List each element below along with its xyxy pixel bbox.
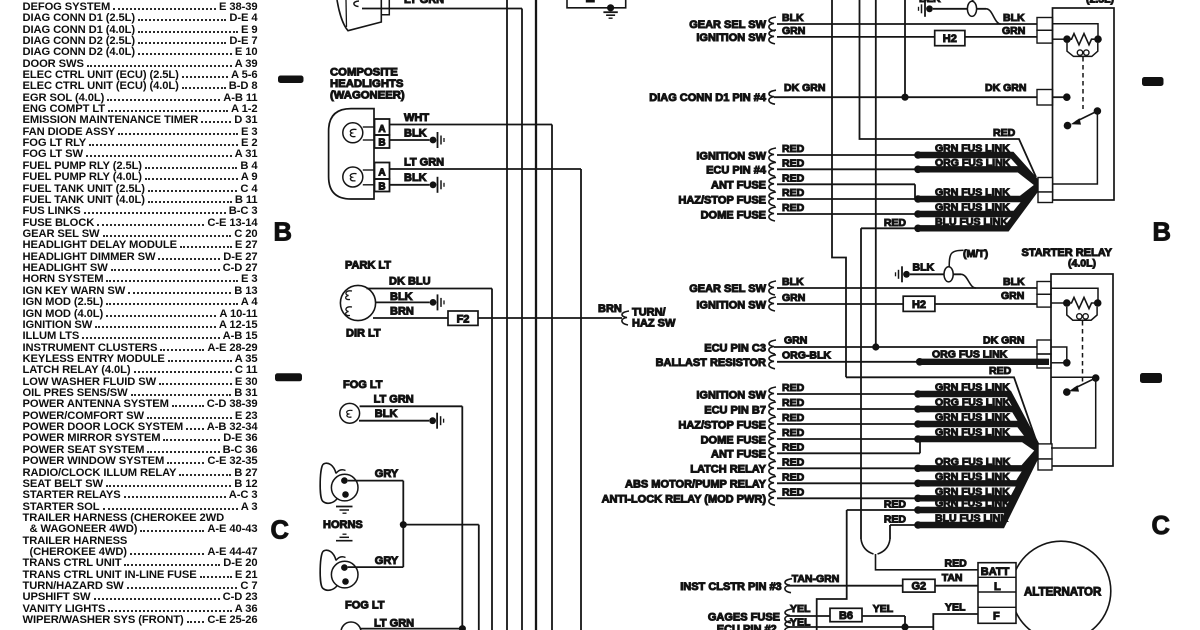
- svg-text:GRN FUS LINK: GRN FUS LINK: [935, 412, 1010, 424]
- wire BLK bulb2 + ground: [390, 172, 445, 193]
- relay2 pin (DK GRN): [1037, 340, 1051, 354]
- label STARTER RELAY (4.0L): [1022, 247, 1113, 270]
- connector B6: [830, 608, 862, 622]
- svg-text:BLU FUS LINK: BLU FUS LINK: [935, 216, 1008, 228]
- wire LT GRN fog lamp 1: [360, 394, 463, 407]
- grid letter C (left): [271, 517, 289, 545]
- relay1 switch arm: [1064, 107, 1102, 129]
- wire horn bus vertical: [402, 481, 404, 567]
- svg-text:RED: RED: [884, 217, 907, 229]
- svg-text:RED: RED: [884, 499, 907, 511]
- ground (relay1 BLK) with bulkhead grommet: [919, 0, 1002, 24]
- svg-text:BLK: BLK: [1003, 276, 1025, 288]
- svg-text:HAZ SW: HAZ SW: [632, 318, 676, 330]
- svg-text:B: B: [1153, 219, 1171, 247]
- relay2 pin (GRN): [1037, 294, 1051, 307]
- svg-text:DIR LT: DIR LT: [346, 328, 381, 340]
- node GAGES FUSE: [708, 603, 909, 630]
- svg-text:ORG FUS LINK: ORG FUS LINK: [932, 348, 1008, 360]
- node BALLAST RESISTOR / ORG FUS LINK: [656, 348, 1049, 369]
- label COMPOSITE HEADLIGHTS (WAGONEER): [330, 67, 405, 102]
- wire descender (GRN FUS LINK feeder): [817, 510, 847, 630]
- svg-text:RED: RED: [782, 143, 805, 155]
- label FOG LT: [343, 379, 383, 391]
- fusible link GRN FUS LINK (HAZ/STOP FUSE) relay2: [678, 412, 1039, 451]
- svg-text:HAZ/STOP FUSE: HAZ/STOP FUSE: [678, 194, 766, 206]
- svg-text:BRN: BRN: [390, 306, 414, 318]
- relay box (cut off at top edge): [567, 0, 626, 8]
- svg-text:G2: G2: [911, 581, 926, 593]
- svg-text:ECU PIN C3: ECU PIN C3: [704, 342, 766, 354]
- wire feeder B (RED relay1): [860, 0, 1037, 177]
- wire YEL to alternator F: [933, 602, 977, 630]
- label RED (relay1 feed): [993, 127, 1016, 139]
- svg-text:LT GRN: LT GRN: [404, 157, 444, 169]
- label HORNS: [323, 519, 363, 531]
- svg-text:RED: RED: [782, 412, 805, 424]
- svg-text:RED: RED: [782, 172, 805, 184]
- grid mark left B/C: [275, 373, 302, 381]
- relay1 pin (DK GRN): [1037, 90, 1053, 106]
- relay2 pin (ORG FUS LINK): [1037, 354, 1051, 368]
- connector G2: [903, 579, 935, 592]
- svg-text:BATT: BATT: [981, 566, 1010, 578]
- svg-text:GEAR SEL SW: GEAR SEL SW: [689, 283, 766, 295]
- svg-text:HAZ/STOP FUSE: HAZ/STOP FUSE: [678, 419, 766, 431]
- connector H2 (relay2): [903, 296, 935, 311]
- horn 2: [320, 550, 358, 590]
- fusible link ORG FUS LINK (LATCH RELAY) relay2: [690, 450, 1039, 476]
- svg-text:ECU PIN B7: ECU PIN B7: [704, 404, 766, 416]
- ground (relay2 BLK) with grommet, (M/T): [896, 248, 989, 288]
- svg-text:ORG-BLK: ORG-BLK: [782, 349, 831, 361]
- svg-text:RED: RED: [782, 397, 805, 409]
- terminal L: [994, 581, 1001, 593]
- svg-text:BLK: BLK: [1003, 12, 1025, 24]
- relay1 coil (resistor + winding): [1053, 34, 1102, 57]
- node ECU PIN C3: [704, 335, 1037, 355]
- relay2 switch arm: [1051, 374, 1099, 396]
- wire bus 7 (LT GRN fog): [461, 406, 463, 628]
- svg-text:B6: B6: [839, 610, 853, 622]
- wire bus 4 (WHT): [551, 125, 553, 630]
- svg-text:A: A: [378, 124, 385, 135]
- svg-text:DIAG CONN D1 PIN #4: DIAG CONN D1 PIN #4: [649, 92, 767, 104]
- fusible link GRN FUS LINK (IGNITION SW) relay2: [696, 382, 1039, 451]
- svg-text:GRN FUS LINK: GRN FUS LINK: [935, 498, 1010, 510]
- wire bus 5 (LT GRN bulb2): [580, 169, 582, 630]
- svg-text:LT GRN: LT GRN: [374, 618, 414, 630]
- relay2 actuation (dashed): [1082, 321, 1084, 382]
- svg-text:LT GRN: LT GRN: [404, 0, 444, 6]
- svg-text:ANT FUSE: ANT FUSE: [711, 180, 766, 192]
- svg-text:DOME FUSE: DOME FUSE: [701, 209, 766, 221]
- wire LT GRN fog lamp 2: [361, 618, 462, 630]
- svg-text:GAGES FUSE: GAGES FUSE: [708, 611, 780, 623]
- svg-text:ANT FUSE: ANT FUSE: [711, 449, 766, 461]
- wire GRY horn 2: [348, 555, 404, 567]
- svg-text:B: B: [274, 219, 292, 247]
- svg-text:C: C: [1152, 512, 1170, 540]
- svg-text:GRN FUS LINK: GRN FUS LINK: [935, 382, 1010, 394]
- svg-text:BRN: BRN: [598, 303, 622, 315]
- label (2.5L) clipped: [1086, 0, 1114, 6]
- wire LT GRN from headlamp: [362, 8, 522, 10]
- svg-text:FOG LT: FOG LT: [343, 379, 383, 391]
- relay1 switch common to pin: [1053, 111, 1098, 184]
- svg-text:INST CLSTR PIN #3: INST CLSTR PIN #3: [680, 581, 781, 593]
- wire RED relay2 feed: [846, 365, 1036, 440]
- wire descender (BLU FUS LINK feeder): [889, 525, 891, 539]
- svg-text:FOG LT: FOG LT: [345, 600, 385, 612]
- junction feeder D / DIAG CONN: [901, 94, 908, 101]
- wire descender to funnel: [860, 228, 862, 539]
- svg-text:HEADLIGHTS: HEADLIGHTS: [330, 78, 404, 90]
- svg-text:GRN: GRN: [1002, 25, 1025, 37]
- svg-text:GRN FUS LINK: GRN FUS LINK: [935, 427, 1010, 439]
- ground (horn 1): [336, 507, 353, 514]
- grid mark left A/B: [278, 76, 304, 84]
- svg-text:BLK: BLK: [782, 276, 804, 288]
- svg-text:TAN-GRN: TAN-GRN: [792, 573, 840, 585]
- fusible link GRN FUS LINK (feeder) relay2: [847, 450, 1039, 514]
- wire BLK fog lamp 1 + ground: [359, 408, 444, 429]
- wire DK BLU park lamp: [367, 276, 493, 289]
- svg-text:B: B: [378, 181, 385, 192]
- svg-text:(M/T): (M/T): [963, 248, 988, 260]
- fusible link GRN FUS LINK (IGNITION SW): [696, 143, 1039, 186]
- svg-text:BLK: BLK: [404, 172, 427, 184]
- wire BRN park lamp to fuse F2: [373, 306, 448, 319]
- svg-text:RED: RED: [884, 514, 907, 526]
- svg-text:RED: RED: [782, 427, 805, 439]
- wire WHT: [390, 112, 553, 125]
- svg-text:ANTI-LOCK RELAY (MOD PWR): ANTI-LOCK RELAY (MOD PWR): [602, 494, 767, 506]
- wire feeder A: [832, 0, 846, 377]
- svg-text:GRN: GRN: [784, 335, 807, 347]
- node ECU PIN #2: [717, 616, 933, 630]
- fuse F2: [448, 311, 478, 325]
- svg-text:RED: RED: [782, 157, 805, 169]
- svg-text:LATCH RELAY: LATCH RELAY: [690, 464, 766, 476]
- fusible-link convergence (relay1): [0, 0, 1, 1]
- fog lamp 2 (cut off at bottom): [341, 622, 361, 630]
- relay1 pin (FUS LINKS): [1038, 178, 1053, 203]
- svg-text:H2: H2: [912, 299, 926, 311]
- relay1 actuation (dashed): [1082, 57, 1084, 109]
- svg-text:H2: H2: [943, 33, 957, 45]
- svg-text:BLK: BLK: [390, 291, 413, 303]
- svg-text:F2: F2: [457, 313, 470, 325]
- svg-text:GRN: GRN: [1001, 290, 1024, 302]
- svg-text:RED: RED: [782, 202, 805, 214]
- starter relay U2 box (4.0L): [1051, 274, 1113, 466]
- svg-text:LT GRN: LT GRN: [374, 394, 414, 406]
- connector pin A (bulb 1): [363, 119, 390, 135]
- grid mark right A/B: [1142, 77, 1164, 86]
- svg-text:DOME FUSE: DOME FUSE: [701, 434, 766, 446]
- connector pin B (bulb 2): [363, 179, 390, 192]
- node IGNITION SW (relay2): [696, 290, 1037, 311]
- relay2 coil (resistor + winding): [1051, 297, 1101, 320]
- svg-text:RED: RED: [989, 365, 1012, 377]
- svg-text:ORG FUS LINK: ORG FUS LINK: [935, 397, 1011, 409]
- label PARK LT: [345, 260, 391, 272]
- wire feeder C: [875, 0, 877, 347]
- svg-text:DK GRN: DK GRN: [784, 82, 825, 94]
- junction feeder C / ECU PIN C3: [872, 343, 879, 350]
- relay1 pin (GRN): [1037, 30, 1053, 43]
- svg-text:ORG FUS LINK: ORG FUS LINK: [935, 157, 1011, 169]
- horn 1: [320, 463, 358, 503]
- fusible link ORG FUS LINK (ECU PIN B7) relay2: [704, 397, 1039, 451]
- node IGNITION SW (relay1): [696, 25, 1037, 44]
- connector pin B (bulb 1): [363, 135, 390, 148]
- svg-text:IGNITION SW: IGNITION SW: [696, 389, 766, 401]
- svg-text:ORG FUS LINK: ORG FUS LINK: [935, 456, 1011, 468]
- svg-text:GRN FUS LINK: GRN FUS LINK: [935, 202, 1010, 214]
- grid letter B (left): [274, 219, 292, 247]
- fusible link GRN FUS LINK (DOME FUSE): [701, 185, 1039, 221]
- grid letter B (right): [1153, 219, 1171, 247]
- relay2 pin (FUS LINKS): [1038, 444, 1052, 459]
- headlamp bulb 1: [343, 123, 363, 143]
- wire feeder D: [904, 0, 906, 97]
- svg-text:GRN: GRN: [782, 292, 805, 304]
- relay1 coil wiring: [1053, 24, 1099, 36]
- relay2 pin (BLK): [1037, 282, 1051, 295]
- svg-text:A: A: [378, 168, 385, 179]
- node TURN/HAZ SW: [632, 307, 676, 330]
- svg-text:COMPOSITE: COMPOSITE: [330, 67, 398, 79]
- svg-text:GRY: GRY: [375, 468, 399, 480]
- svg-text:F: F: [993, 611, 1000, 623]
- fusible link GRN FUS LINK (DOME FUSE) relay2: [701, 427, 1039, 451]
- wire BLK bulb1 + ground: [390, 128, 445, 149]
- node GEAR SEL SW (relay2): [689, 276, 1037, 295]
- fusible link GRN FUS LINK (ABS MOTOR/PUMP RELAY) relay2: [625, 450, 1039, 491]
- wire BRN to turn/haz switch: [478, 303, 629, 325]
- index of circuits (left column): [23, 1, 258, 626]
- svg-text:(4.0L): (4.0L): [1068, 258, 1096, 270]
- svg-text:RED: RED: [782, 486, 805, 498]
- relay1 pin (BLK): [1037, 18, 1053, 31]
- svg-text:B: B: [378, 137, 385, 148]
- alternator terminal block: [978, 563, 1016, 624]
- svg-text:BLK: BLK: [404, 128, 427, 140]
- park lamp: [340, 285, 375, 320]
- fusible link GRN FUS LINK (ANTI-LOCK RELAY (MOD PWR)) relay2: [602, 450, 1039, 506]
- svg-text:GRN: GRN: [782, 25, 805, 37]
- svg-text:ECU PIN #2: ECU PIN #2: [717, 624, 777, 630]
- wire LT GRN bulb2: [390, 157, 582, 170]
- connector pin A (bulb 2): [363, 163, 390, 180]
- headlamp bulb 2: [343, 167, 363, 187]
- svg-text:YEL: YEL: [790, 603, 811, 615]
- svg-text:L: L: [994, 581, 1001, 593]
- alternator: [1011, 541, 1111, 630]
- wire bus 1: [506, 0, 508, 630]
- wire bus 2 (LT GRN headlamp): [521, 9, 523, 630]
- relay1 contact (DK GRN): [1053, 93, 1071, 101]
- svg-text:GRY: GRY: [375, 555, 399, 567]
- junction horns: [400, 521, 407, 528]
- svg-text:RED: RED: [782, 441, 805, 453]
- svg-text:RED: RED: [782, 187, 805, 199]
- svg-text:IGNITION SW: IGNITION SW: [696, 32, 766, 44]
- svg-text:DK GRN: DK GRN: [983, 335, 1024, 347]
- svg-text:RED: RED: [782, 382, 805, 394]
- svg-text:GRN FUS LINK: GRN FUS LINK: [935, 187, 1010, 199]
- svg-text:YEL: YEL: [873, 603, 894, 615]
- svg-text:TAN: TAN: [942, 572, 963, 584]
- svg-text:GEAR SEL SW: GEAR SEL SW: [689, 19, 766, 31]
- label DIR LT: [346, 328, 381, 340]
- node GEAR SEL SW (relay1): [689, 12, 1037, 31]
- composite headlight housing: [329, 109, 374, 199]
- terminal F: [993, 611, 1000, 623]
- grid mark right B/C: [1140, 373, 1162, 383]
- svg-text:BLK: BLK: [913, 262, 935, 274]
- label FOG LT (lower): [345, 600, 385, 612]
- junction fog lamp bus: [459, 625, 466, 630]
- svg-text:RED: RED: [945, 558, 968, 570]
- terminal BATT: [981, 566, 1010, 578]
- relay2 pin (switch common): [1038, 459, 1052, 470]
- ground (horn 2): [336, 534, 353, 541]
- relay2 switch common to pin: [1051, 378, 1096, 448]
- fusible link BLU FUS LINK (feeder): [861, 185, 1039, 232]
- svg-text:IGNITION SW: IGNITION SW: [696, 299, 766, 311]
- node ANT FUSE (relay1): [711, 172, 915, 199]
- svg-text:YEL: YEL: [945, 602, 966, 614]
- node INST CLSTR PIN #3: [680, 572, 977, 593]
- fusible link ORG FUS LINK (ECU PIN #4): [706, 157, 1039, 185]
- svg-text:BLK: BLK: [375, 408, 398, 420]
- cable funnel to alternator BATT: [861, 539, 978, 570]
- fusible link GRN FUS LINK (HAZ/STOP FUSE): [678, 185, 1039, 206]
- svg-text:IGNITION SW: IGNITION SW: [696, 150, 766, 162]
- grid letter C (right): [1152, 512, 1170, 540]
- svg-text:WHT: WHT: [404, 112, 429, 124]
- svg-text:RED: RED: [782, 456, 805, 468]
- fusible link BLU FUS LINK (feeder) relay2: [884, 450, 1039, 529]
- wire horns to bus: [403, 524, 479, 526]
- svg-text:ABS MOTOR/PUMP RELAY: ABS MOTOR/PUMP RELAY: [625, 479, 767, 491]
- svg-text:C: C: [271, 517, 289, 545]
- svg-text:PARK LT: PARK LT: [345, 260, 391, 272]
- headlamp (sealed beam, cut off at top): [337, 0, 389, 31]
- svg-text:GRN FUS LINK: GRN FUS LINK: [935, 143, 1010, 155]
- svg-text:BLK: BLK: [782, 12, 804, 24]
- svg-text:HORNS: HORNS: [323, 519, 363, 531]
- fusible-link convergence (relay2): [0, 0, 1, 1]
- svg-text:(2.5L): (2.5L): [1086, 0, 1114, 6]
- connector H2 (relay1): [935, 31, 965, 46]
- svg-text:ALTERNATOR: ALTERNATOR: [1024, 586, 1102, 598]
- wire BLK park lamp + ground: [376, 291, 444, 311]
- svg-text:BLK: BLK: [919, 0, 941, 5]
- svg-text:DK GRN: DK GRN: [985, 82, 1026, 94]
- svg-text:BALLAST RESISTOR: BALLAST RESISTOR: [656, 357, 766, 369]
- wire bus 3: [535, 0, 537, 630]
- node ANT FUSE (relay2): [711, 439, 920, 461]
- starter relay U1 box (2.5L): [1053, 8, 1115, 200]
- relay2 contact (DK GRN + ORG FUS LINK): [1051, 347, 1071, 367]
- svg-text:ECU PIN #4: ECU PIN #4: [706, 165, 767, 177]
- node DIAG CONN D1 PIN #4: [649, 82, 1037, 104]
- relay2 coil wiring: [1051, 288, 1098, 300]
- fog lamp 1: [340, 403, 360, 423]
- wire bus 6 (DK BLU): [491, 289, 493, 630]
- svg-text:(WAGONEER): (WAGONEER): [330, 90, 405, 102]
- ground (top relay box): [603, 4, 617, 18]
- wire bus 8 (horns): [478, 525, 480, 630]
- wire GRY horn 1: [348, 468, 404, 481]
- svg-text:BLU FUS LINK: BLU FUS LINK: [935, 513, 1008, 525]
- label LT GRN (clipped at top): [404, 0, 444, 6]
- svg-text:DK BLU: DK BLU: [389, 276, 431, 288]
- svg-text:RED: RED: [993, 127, 1016, 139]
- svg-text:GRN FUS LINK: GRN FUS LINK: [935, 471, 1010, 483]
- svg-text:RED: RED: [782, 471, 805, 483]
- svg-text:GRN FUS LINK: GRN FUS LINK: [935, 486, 1010, 498]
